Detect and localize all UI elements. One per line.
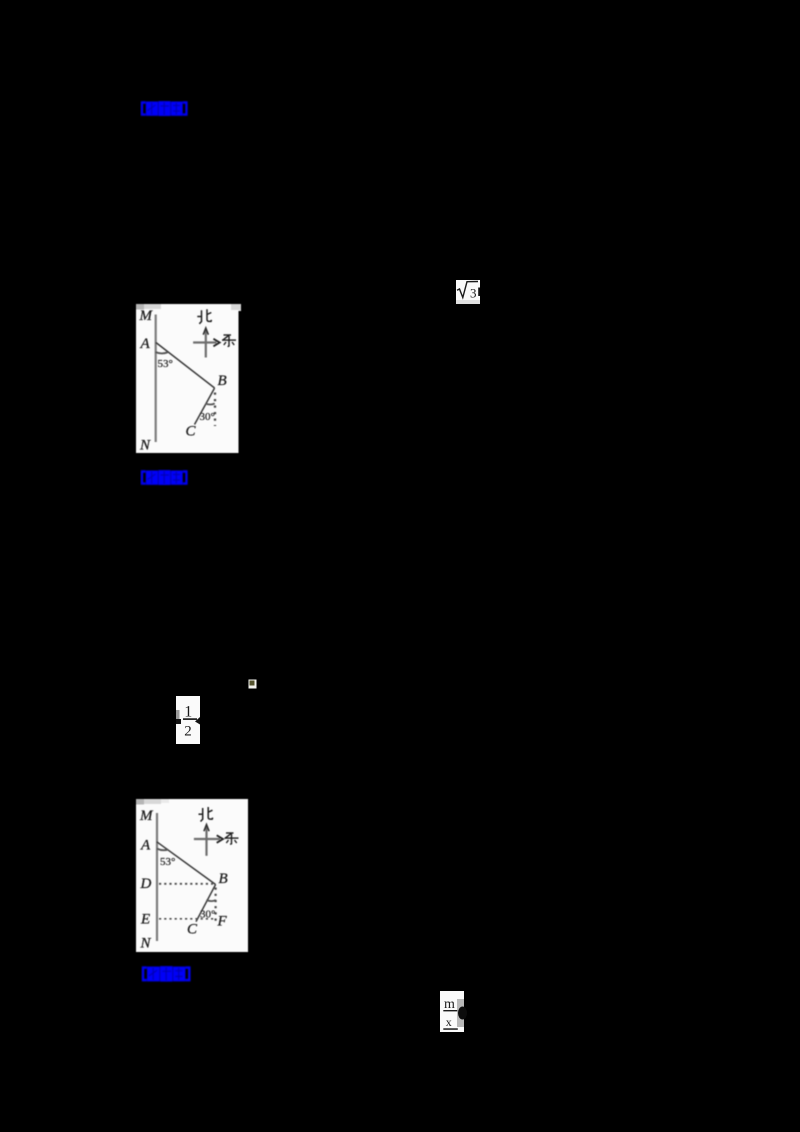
compass vertical shaft with north arrow [205, 330, 207, 358]
dashed line DB [159, 883, 213, 885]
answer link 2 [140, 469, 190, 487]
figure 1 white background [136, 304, 239, 453]
svg-text:30°: 30° [200, 411, 215, 423]
figure 1 top gray strip [136, 304, 144, 310]
glyph dong (east) [225, 833, 239, 844]
dotted vertical from B [214, 393, 216, 427]
figure 2 [136, 799, 248, 952]
line AB [156, 343, 215, 389]
fraction bar [443, 1010, 457, 1011]
svg-text:53°: 53° [158, 358, 173, 370]
svg-text:M: M [139, 808, 154, 824]
svg-text:F: F [217, 914, 228, 930]
clipped dark mark right [478, 288, 480, 297]
line AB [157, 842, 216, 885]
glyph bei (north) [199, 807, 213, 822]
line MN [155, 315, 157, 443]
svg-text:2: 2 [184, 723, 192, 739]
clipped dark mark left [176, 719, 181, 724]
answer link 1 (blue 【答案】) [140, 100, 190, 118]
one half fraction box [176, 696, 200, 744]
svg-text:N: N [139, 438, 151, 454]
angle arc at B [205, 403, 214, 404]
tiny glyph box [248, 679, 258, 689]
svg-text:N: N [140, 936, 152, 952]
svg-text:m: m [444, 997, 455, 1012]
figure 2 top gray strip [136, 799, 144, 805]
svg-text:x: x [446, 1015, 452, 1029]
m over x fraction box [440, 991, 467, 1032]
east arrow chevron [213, 339, 219, 347]
svg-text:A: A [140, 336, 151, 352]
compass horizontal shaft [194, 838, 220, 840]
angle arc at A [157, 849, 168, 851]
svg-text:M: M [139, 308, 154, 324]
sqrt 3 formula box [456, 280, 480, 304]
svg-text:1: 1 [184, 703, 192, 720]
clipped dark blob right [458, 1007, 467, 1020]
svg-text:E: E [140, 912, 150, 928]
clipped dark mark right [195, 717, 200, 725]
angle arc at B [206, 900, 215, 901]
svg-text:3: 3 [470, 286, 477, 301]
svg-text:D: D [140, 876, 152, 892]
svg-text:A: A [140, 838, 151, 854]
svg-text:53°: 53° [160, 856, 175, 868]
radical sign [457, 282, 478, 298]
svg-text:B: B [219, 871, 228, 887]
svg-text:C: C [187, 922, 198, 938]
line MN [156, 813, 158, 941]
compass vertical shaft with north arrow [205, 826, 207, 856]
glyph dong (east) [222, 335, 236, 347]
figure 1 [136, 304, 241, 453]
line BC [196, 885, 216, 922]
fraction bar [183, 718, 197, 720]
east arrow chevron [217, 835, 223, 843]
dashed line EF [159, 918, 215, 920]
line BC [195, 388, 215, 425]
svg-text:C: C [186, 424, 197, 440]
svg-text:B: B [218, 373, 227, 389]
angle arc at A [156, 352, 168, 353]
dashed vertical BF [215, 888, 217, 924]
answer link 3 [141, 965, 193, 984]
glyph bei (north) [197, 309, 211, 324]
figure 2 white background [136, 799, 248, 952]
bottom bar [443, 1028, 458, 1030]
compass horizontal shaft [193, 341, 216, 343]
